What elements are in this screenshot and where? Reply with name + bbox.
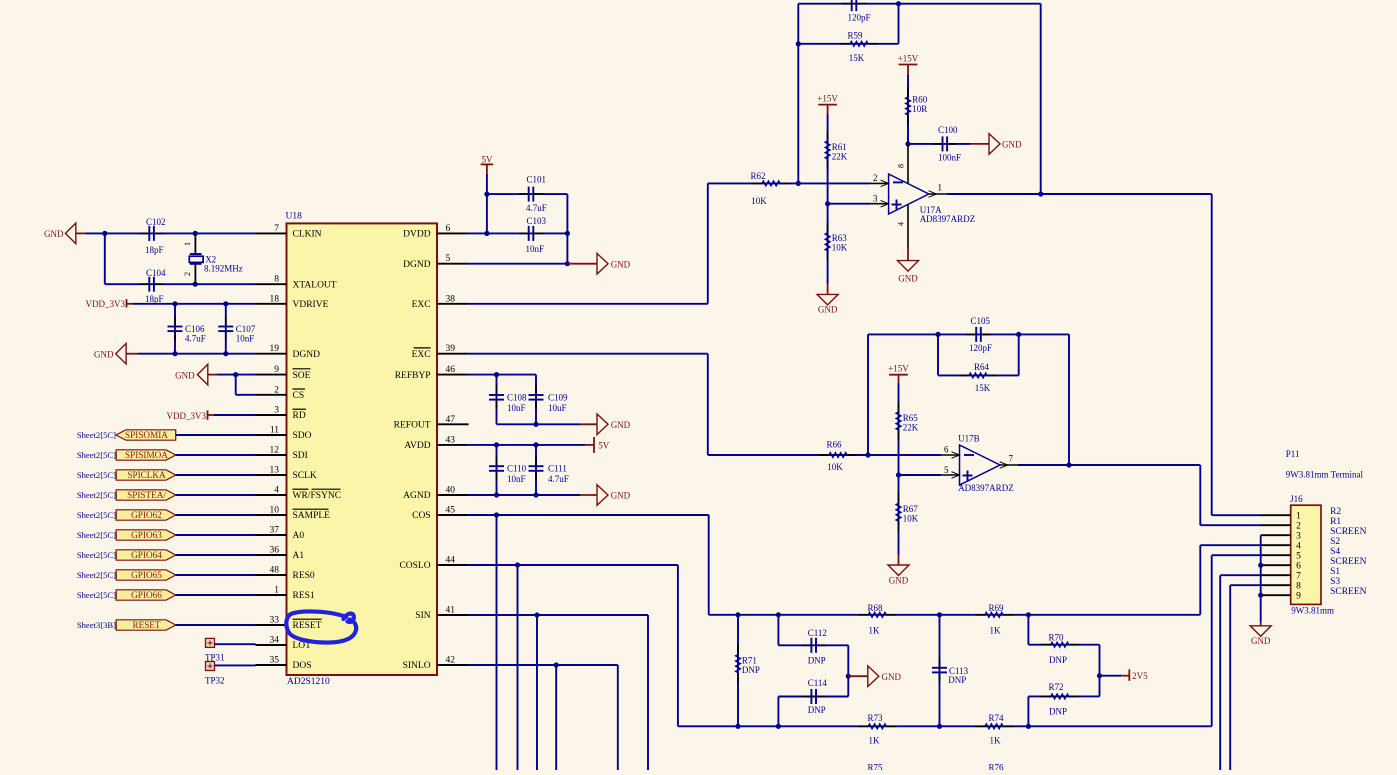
U18 pin 6 DVDD (right) <box>437 232 467 234</box>
wire R59 right vertical <box>898 4 900 44</box>
capacitor C114 DNP <box>847 676 849 696</box>
junction SIN column <box>534 612 539 617</box>
wire J16 pin8 down <box>1230 584 1261 586</box>
svg-text:4: 4 <box>274 486 279 496</box>
resistor R68 1K <box>858 614 868 616</box>
resistor R65 22K <box>898 384 900 476</box>
capacitor C100 100nF <box>908 143 970 145</box>
wire REFBYP row <box>467 374 536 376</box>
test point TP32 <box>206 662 215 671</box>
svg-text:10uF: 10uF <box>548 403 567 413</box>
svg-text:SAMPLE: SAMPLE <box>293 511 331 521</box>
junction C111 bottom <box>533 492 538 497</box>
capacitor C105 120pF <box>967 333 977 335</box>
ground GND below J16 <box>1260 622 1262 626</box>
svg-text:SCREEN: SCREEN <box>1330 557 1367 567</box>
wire U17B feedback left vertical <box>867 334 869 455</box>
wire AGND row <box>467 494 580 496</box>
svg-text:DNP: DNP <box>742 665 760 675</box>
wire U17A output run <box>947 193 1212 195</box>
svg-text:Sheet2[5C]: Sheet2[5C] <box>77 430 116 440</box>
svg-text:1K: 1K <box>990 736 1002 746</box>
svg-text:S3: S3 <box>1330 577 1340 587</box>
wire output down to J16 pin2 <box>1199 465 1201 525</box>
resistor R72 DNP <box>1099 676 1101 697</box>
wire C101 right vertical <box>566 194 568 264</box>
svg-text:15K: 15K <box>849 53 865 63</box>
wire COSLO run <box>467 564 678 566</box>
svg-text:DVDD: DVDD <box>403 230 431 240</box>
U18 pin 35 DOS (left) <box>256 664 287 666</box>
svg-text:R60: R60 <box>912 95 928 105</box>
svg-text:9: 9 <box>1296 591 1301 601</box>
svg-text:SINLO: SINLO <box>403 661 431 671</box>
svg-text:DNP: DNP <box>1049 655 1067 665</box>
junction R71 bottom <box>735 724 740 729</box>
U17A pin 2 input <box>870 182 889 184</box>
capacitor C106 4.7uF <box>174 304 176 354</box>
wire COSLO down to R73 rail <box>677 565 679 726</box>
svg-text:10nF: 10nF <box>507 474 526 484</box>
wire SINLO vertical to bottom <box>555 665 557 770</box>
U18 pin 2 CS (left) <box>256 394 287 396</box>
svg-text:DNP: DNP <box>808 656 826 666</box>
connector J16 body <box>1291 505 1321 604</box>
svg-text:XTALOUT: XTALOUT <box>293 280 337 290</box>
U18 pin 44 COSLO (right) <box>437 564 467 566</box>
junction U17B output/feedback <box>1066 462 1071 467</box>
svg-text:R70: R70 <box>1048 633 1064 643</box>
junction R59 left <box>796 41 801 46</box>
U18 pin 36 A1 (left) <box>256 554 287 556</box>
J16 pin 9 <box>1261 594 1291 596</box>
wire U17B output run <box>1018 464 1200 466</box>
wire to CS pin <box>235 375 237 395</box>
svg-text:AD2S1210: AD2S1210 <box>287 677 330 687</box>
junction C101 left <box>484 192 489 197</box>
svg-text:2: 2 <box>1296 521 1301 531</box>
U18 pin 3 RD (left) <box>256 414 287 416</box>
svg-text:120pF: 120pF <box>847 13 870 23</box>
svg-text:R61: R61 <box>832 142 847 152</box>
U18 pin 40 AGND (right) <box>437 494 467 496</box>
svg-text:AD8397ARDZ: AD8397ARDZ <box>958 483 1014 493</box>
IC U18 AD2S1210 body <box>287 223 438 675</box>
wire COS vertical to bottom <box>496 515 498 770</box>
ground GND at pin 5 <box>597 253 608 274</box>
resistor R62 10K <box>752 182 762 184</box>
svg-text:SPICLKA: SPICLKA <box>127 470 166 480</box>
U17A pin 1 output <box>929 193 947 195</box>
resistor R70 DNP <box>1027 615 1029 645</box>
junction C109 bottom <box>533 422 538 427</box>
U17B pin 5 input <box>941 474 960 476</box>
svg-text:R64: R64 <box>974 362 990 372</box>
svg-text:Sheet2[5C]: Sheet2[5C] <box>77 550 116 560</box>
ground GND at REFBYP rail <box>597 414 608 435</box>
svg-text:10K: 10K <box>903 514 919 524</box>
wire left vertical to C104 row <box>104 233 106 284</box>
svg-text:R68: R68 <box>867 603 883 613</box>
svg-text:4: 4 <box>897 222 906 226</box>
svg-text:13: 13 <box>270 466 280 476</box>
svg-text:DNP: DNP <box>808 705 826 715</box>
svg-text:C102: C102 <box>146 217 166 227</box>
resistor R73 1K <box>858 725 868 727</box>
svg-text:R71: R71 <box>742 656 757 666</box>
junction C100 node <box>905 141 910 146</box>
junction C110 top <box>494 442 499 447</box>
power port 2V5 <box>1100 675 1122 677</box>
U18 pin 42 SINLO (right) <box>437 664 467 666</box>
svg-text:S1: S1 <box>1330 567 1340 577</box>
capacitor C110 10nF <box>496 445 498 495</box>
svg-text:7: 7 <box>274 224 279 234</box>
junction C106 top <box>172 301 177 306</box>
junction inverting input node <box>796 181 801 186</box>
svg-text:SCLK: SCLK <box>293 471 317 481</box>
wire SIN run <box>467 614 648 616</box>
junction crystal bottom <box>193 282 198 287</box>
junction mid ground node <box>846 674 851 679</box>
U18 pin 46 REFBYP (right) <box>437 374 467 376</box>
wire to pin 2 <box>798 182 870 184</box>
junction C106 bottom <box>172 351 177 356</box>
power port 5V at AVDD <box>585 444 594 446</box>
svg-text:38: 38 <box>446 294 456 304</box>
junction output/feedback <box>1038 191 1043 196</box>
J16 pin 3 <box>1261 534 1291 536</box>
svg-text:18pF: 18pF <box>145 294 164 304</box>
crystal X2 8.192MHz <box>194 233 196 254</box>
svg-text:GPIO65: GPIO65 <box>131 570 162 580</box>
J16 pin 2 <box>1261 524 1291 526</box>
capacitor C103 10nF <box>519 232 529 234</box>
svg-text:5V: 5V <box>482 154 494 164</box>
svg-text:6: 6 <box>944 445 949 455</box>
ground GND below U17A <box>907 248 909 261</box>
svg-text:SPISTEA/: SPISTEA/ <box>127 490 166 500</box>
wire R62 row <box>708 182 799 184</box>
svg-text:R73: R73 <box>867 713 883 723</box>
junction DVDD right <box>565 231 570 236</box>
junction CLKIN / crystal top <box>193 231 198 236</box>
svg-text:AD8397ARDZ: AD8397ARDZ <box>920 214 976 224</box>
U18 pin 41 SIN (right) <box>437 614 467 616</box>
svg-text:R66: R66 <box>826 440 842 450</box>
wire DVDD row <box>467 232 567 234</box>
svg-text:R74: R74 <box>988 713 1004 723</box>
svg-text:C108: C108 <box>507 393 527 403</box>
J16 pin 4 <box>1261 544 1291 546</box>
svg-text:1: 1 <box>938 183 943 193</box>
svg-text:10nF: 10nF <box>236 334 255 344</box>
svg-text:R62: R62 <box>750 171 765 181</box>
junction SOE/CS <box>233 372 238 377</box>
svg-text:10K: 10K <box>832 243 848 253</box>
svg-text:45: 45 <box>446 506 456 516</box>
wire to pin 5 <box>899 474 942 476</box>
svg-text:C107: C107 <box>236 324 256 334</box>
ground GND at crystal left <box>65 223 75 244</box>
U18 pin 4 WR/FSYNC (left) <box>256 494 287 496</box>
wire J16 pin5 to R74 rail <box>1212 554 1261 556</box>
wire feedback top <box>798 3 1040 5</box>
svg-text:C109: C109 <box>548 393 568 403</box>
capacitor C104 18pF <box>140 283 150 285</box>
svg-text:44: 44 <box>446 556 456 566</box>
junction SCREEN pin6 <box>1258 563 1263 568</box>
svg-text:4.7uF: 4.7uF <box>526 203 547 213</box>
svg-text:42: 42 <box>446 656 456 666</box>
svg-text:COSLO: COSLO <box>399 561 430 571</box>
U18 pin 45 COS (right) <box>437 514 467 516</box>
svg-text:GPIO62: GPIO62 <box>131 510 162 520</box>
svg-text:P11: P11 <box>1286 449 1300 459</box>
wire XTALOUT row <box>105 283 256 285</box>
ground GND below R67 <box>898 555 900 565</box>
svg-text:DNP: DNP <box>948 675 966 685</box>
svg-text:GND: GND <box>898 274 918 284</box>
wire U17B feedback top <box>868 333 1069 335</box>
svg-text:VDD_3V3: VDD_3V3 <box>86 299 126 309</box>
ground GND at DGND row <box>116 343 126 364</box>
svg-text:C100: C100 <box>938 125 958 135</box>
svg-text:1K: 1K <box>869 736 881 746</box>
svg-text:8: 8 <box>274 275 279 285</box>
svg-text:1K: 1K <box>990 626 1002 636</box>
wire SIN vertical to bottom <box>536 615 538 770</box>
svg-text:Sheet2[5C]: Sheet2[5C] <box>77 590 116 600</box>
svg-text:36: 36 <box>270 546 280 556</box>
svg-text:10K: 10K <box>751 196 767 206</box>
junction C110 bottom <box>494 492 499 497</box>
junction C107 top <box>223 301 228 306</box>
capacitor C101 4.7uF <box>487 193 568 195</box>
svg-text:A0: A0 <box>293 531 305 541</box>
svg-text:10nF: 10nF <box>507 403 526 413</box>
svg-text:37: 37 <box>270 526 280 536</box>
wire output down to J16 pin1 <box>1211 194 1213 515</box>
wire R66 row <box>708 454 941 456</box>
svg-text:WR/FSYNC: WR/FSYNC <box>293 491 342 501</box>
svg-text:GND: GND <box>44 229 64 239</box>
U18 pin 11 SDO (left) <box>256 434 287 436</box>
wire GPIO62 to pin <box>176 514 256 516</box>
svg-text:GPIO66: GPIO66 <box>131 590 162 600</box>
svg-text:R65: R65 <box>903 413 919 423</box>
wire EXC(39) run <box>467 353 708 355</box>
capacitor C111 4.7uF <box>535 445 537 495</box>
wire SPISIMOA to pin <box>176 454 256 456</box>
wire COS down to R68 rail <box>708 515 710 615</box>
wire U17B feedback right vertical <box>1068 334 1070 465</box>
wire GPIO63 to pin <box>176 534 256 536</box>
svg-text:Sheet2[5C]: Sheet2[5C] <box>77 490 116 500</box>
ground GND at AGND <box>597 485 608 506</box>
svg-text:33: 33 <box>270 616 280 626</box>
svg-text:AGND: AGND <box>403 491 431 501</box>
resistor R61 22K <box>827 114 829 204</box>
junction COS column <box>494 512 499 517</box>
wire SCREEN bus vertical <box>1260 535 1262 622</box>
svg-text:REFOUT: REFOUT <box>394 421 431 431</box>
svg-text:1K: 1K <box>869 626 881 636</box>
wire GPIO64 to pin <box>176 554 256 556</box>
U18 pin 39 EXC (right) <box>437 353 467 355</box>
junction C105 left <box>935 332 940 337</box>
svg-text:46: 46 <box>446 365 456 375</box>
svg-text:4.7uF: 4.7uF <box>185 334 206 344</box>
svg-text:3: 3 <box>1296 531 1301 541</box>
svg-text:DGND: DGND <box>293 350 321 360</box>
junction R72 bottom <box>1026 724 1031 729</box>
junction R70 top <box>1026 612 1031 617</box>
svg-text:R67: R67 <box>903 504 919 514</box>
junction SINLO column <box>554 662 559 667</box>
svg-text:8: 8 <box>897 164 906 168</box>
svg-text:4.7uF: 4.7uF <box>548 474 569 484</box>
wire RD row <box>214 414 256 416</box>
svg-text:VDRIVE: VDRIVE <box>293 300 329 310</box>
svg-text:5: 5 <box>944 465 949 475</box>
svg-text:R2: R2 <box>1330 507 1341 517</box>
ground GND below R63 <box>827 284 829 294</box>
junction top right of R59 <box>896 1 901 6</box>
svg-text:RESET: RESET <box>293 621 322 631</box>
U18 pin 38 EXC (right) <box>437 303 467 305</box>
svg-text:40: 40 <box>446 486 456 496</box>
svg-text:48: 48 <box>270 566 280 576</box>
svg-text:5V: 5V <box>598 441 610 451</box>
svg-text:R1: R1 <box>1330 517 1341 527</box>
svg-text:SDO: SDO <box>293 431 312 441</box>
svg-text:41: 41 <box>446 606 456 616</box>
U18 pin 43 AVDD (right) <box>437 444 467 446</box>
svg-text:R69: R69 <box>988 603 1004 613</box>
junction U17B inverting node <box>865 452 870 457</box>
J16 pin 5 <box>1261 554 1291 556</box>
U18 pin 12 SDI (left) <box>256 454 287 456</box>
junction U17B non-inverting node <box>896 472 901 477</box>
resistor R63 10K <box>827 204 829 285</box>
svg-text:3: 3 <box>873 194 878 204</box>
wire SPICLKA to pin <box>176 474 256 476</box>
wire EXC(39) down <box>707 354 709 455</box>
svg-text:U18: U18 <box>286 212 303 222</box>
svg-text:U17B: U17B <box>958 434 980 444</box>
svg-text:GND: GND <box>175 371 195 381</box>
svg-text:Sheet2[5C]: Sheet2[5C] <box>77 570 116 580</box>
wire J16 pin4 to SIN rail <box>1200 544 1261 546</box>
svg-text:J16: J16 <box>1290 494 1303 504</box>
U18 pin 47 REFOUT (right) <box>437 423 469 425</box>
U17B pin 6 input <box>941 454 960 456</box>
svg-text:GND: GND <box>1002 140 1022 150</box>
svg-text:47: 47 <box>446 415 456 425</box>
wire SINLO run <box>467 664 618 666</box>
svg-text:SIN: SIN <box>415 611 430 621</box>
junction C113 top <box>937 612 942 617</box>
U18 pin 48 RES0 (left) <box>256 574 287 576</box>
svg-text:8: 8 <box>1296 581 1301 591</box>
J16 pin 1 <box>1261 514 1291 516</box>
junction DVDD left <box>484 231 489 236</box>
svg-text:5: 5 <box>1296 551 1301 561</box>
svg-text:A1: A1 <box>293 551 305 561</box>
op-amp U17A negative supply pin 4 <box>907 205 909 248</box>
svg-text:GND: GND <box>889 576 909 586</box>
wire GPIO65 to pin <box>176 574 256 576</box>
U17A pin 3 input <box>870 203 889 205</box>
op-amp U17A positive supply pin 8 <box>907 144 909 184</box>
svg-text:11: 11 <box>270 426 279 436</box>
junction SCREEN pin9 <box>1258 593 1263 598</box>
svg-text:120pF: 120pF <box>969 343 992 353</box>
svg-text:GND: GND <box>611 420 631 430</box>
resistor R60 10R <box>907 75 909 144</box>
svg-text:4: 4 <box>1296 541 1301 551</box>
U18 pin 1 RES1 (left) <box>256 594 287 596</box>
junction R71 top <box>735 612 740 617</box>
svg-text:R72: R72 <box>1048 682 1063 692</box>
svg-text:22K: 22K <box>903 423 919 433</box>
svg-text:SOE: SOE <box>293 371 311 381</box>
svg-text:35: 35 <box>270 656 280 666</box>
freehand blue ink circle around RESET <box>286 611 356 642</box>
svg-text:+15V: +15V <box>817 94 838 104</box>
wire TP31 to LOT <box>215 643 256 645</box>
capacitor C108 10nF <box>496 375 498 425</box>
svg-text:GND: GND <box>818 305 838 315</box>
wire EXC(38) run <box>467 303 708 305</box>
wire R68 rail <box>709 614 1201 616</box>
svg-text:CS: CS <box>293 391 305 401</box>
svg-text:TP32: TP32 <box>205 676 225 686</box>
junction COSLO column <box>515 562 520 567</box>
J16 pin 7 <box>1261 574 1291 576</box>
svg-text:RES1: RES1 <box>293 591 315 601</box>
wire SPISTEA/ to pin <box>176 494 256 496</box>
svg-text:RD: RD <box>293 411 306 421</box>
svg-text:12: 12 <box>270 446 280 456</box>
svg-text:EXC: EXC <box>412 300 431 310</box>
svg-text:1: 1 <box>182 242 192 246</box>
U18 pin 13 SCLK (left) <box>256 474 287 476</box>
svg-text:6: 6 <box>446 224 451 234</box>
wire SOE row <box>217 374 256 376</box>
U18 pin 9 SOE (left) <box>256 374 287 376</box>
svg-text:18: 18 <box>270 294 280 304</box>
test point TP31 <box>206 638 215 647</box>
wire EXC up to R62 <box>707 183 709 303</box>
wire VDRIVE row <box>133 303 256 305</box>
svg-text:REFBYP: REFBYP <box>395 371 431 381</box>
resistor R64 15K loop <box>937 334 939 375</box>
svg-text:2: 2 <box>182 272 192 276</box>
U18 pin 34 LOT (left) <box>256 644 287 646</box>
svg-text:R63: R63 <box>832 233 848 243</box>
ground GND at C100 <box>989 134 1000 155</box>
capacitor C112 DNP <box>777 615 779 646</box>
svg-text:2: 2 <box>873 173 878 183</box>
U18 pin 7 CLKIN (left) <box>256 232 287 234</box>
wire RESET to pin <box>176 624 256 626</box>
J16 pin 6 <box>1261 564 1291 566</box>
svg-text:Sheet2[5C]: Sheet2[5C] <box>77 530 116 540</box>
svg-text:3: 3 <box>274 406 279 416</box>
wire COS run <box>467 514 709 516</box>
